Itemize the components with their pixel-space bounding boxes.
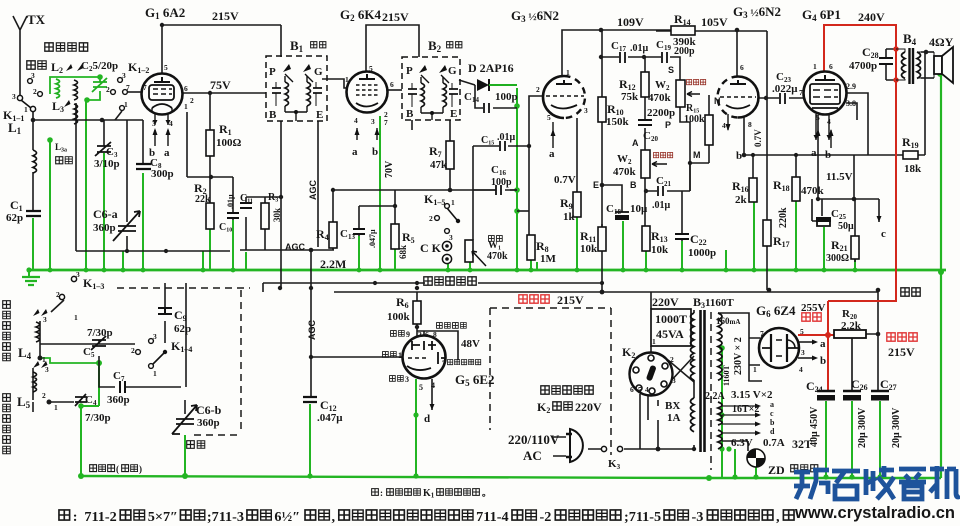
svg-text:G3 ½6N2: G3 ½6N2 (733, 4, 781, 20)
wire R1 bottom to R2 (209, 156, 211, 203)
1000T 45VA box (651, 309, 691, 346)
capacitor C6-b variable (172, 405, 197, 434)
svg-text:9: 9 (406, 330, 410, 339)
svg-text:2.2M: 2.2M (320, 257, 346, 271)
svg-text:4: 4 (827, 117, 831, 126)
svg-text:22k: 22k (195, 194, 211, 205)
svg-text:3: 3 (152, 119, 156, 128)
green vertical x203 (202, 251, 204, 270)
IF transformer B2 (402, 57, 460, 120)
green vertical 70V cathode G2 (379, 116, 381, 270)
text 短波振荡线圈 vertical (3, 301, 11, 309)
svg-text:10k: 10k (580, 243, 598, 255)
coil L3 bottom (74, 104, 78, 124)
wire x767 down to R17 (766, 31, 768, 220)
wire R16 top (752, 155, 754, 178)
svg-text:62p: 62p (6, 212, 23, 224)
resistor R14 horizontal (671, 26, 695, 35)
green stub R21 (854, 260, 856, 270)
svg-text:G: G (314, 66, 323, 78)
text 电源变换插 (541, 386, 549, 394)
svg-text::: : (73, 510, 78, 525)
capacitor C6-a variable (113, 211, 140, 241)
svg-text:AGC: AGC (308, 180, 318, 201)
resistor R18 (792, 177, 800, 201)
svg-text:3: 3 (672, 376, 676, 385)
text 调低音 (653, 152, 658, 157)
green vertical C6-b (184, 435, 186, 476)
text 指示灯 ZD (791, 465, 798, 472)
wire R21 (854, 199, 856, 262)
svg-text:,: , (331, 510, 335, 525)
svg-text:70V: 70V (384, 160, 395, 178)
resistor R4 (329, 222, 337, 248)
svg-text:300Ω: 300Ω (826, 253, 849, 264)
green vertical R16 (753, 202, 755, 270)
capacitor C25 electrolytic (817, 217, 830, 226)
svg-text:6: 6 (184, 84, 188, 93)
svg-text:C K: C K (420, 241, 442, 255)
capacitor C20 (638, 120, 652, 125)
red voltage labels (519, 288, 920, 341)
svg-text:62p: 62p (174, 323, 191, 335)
capacitor C19 (662, 52, 667, 63)
svg-text:4: 4 (169, 119, 173, 128)
svg-text:711-4: 711-4 (476, 510, 509, 525)
注: (59, 510, 70, 520)
wire G3a grid (529, 96, 543, 235)
green vertical C4/C5 node down to ground (81, 363, 99, 476)
green vertical C22 (681, 241, 683, 270)
svg-text:2: 2 (418, 330, 422, 339)
svg-text:7/30p: 7/30p (85, 412, 111, 424)
svg-text:5: 5 (816, 113, 820, 122)
green vertical R13 (645, 251, 647, 270)
note line small: 注:波段开关K1在中波位置。 (372, 488, 491, 500)
potentiometer W2 treble (676, 80, 685, 107)
wire y177 (187, 176, 233, 178)
text 接地线(接壳) (90, 465, 97, 472)
wire G2 pin5 to rail (366, 25, 419, 72)
tube G1 6A2 (142, 74, 183, 126)
green vertical C12 ground (309, 404, 311, 476)
dashed B3 shield (710, 312, 712, 470)
svg-text:。: 。 (482, 488, 491, 498)
svg-text:C6-b: C6-b (196, 403, 222, 417)
svg-text:;711-3: ;711-3 (207, 510, 244, 525)
green wire C2 bottom to node (87, 91, 100, 100)
green vertical C1 (32, 218, 34, 270)
left end drop to ground (28, 270, 30, 276)
svg-text:20μ 300V: 20μ 300V (891, 407, 902, 448)
wire B1 G to G2 grid (322, 79, 347, 88)
wire R17 bottom (766, 246, 768, 290)
svg-text:220k: 220k (778, 207, 789, 228)
svg-text:D 2AP16: D 2AP16 (468, 61, 514, 75)
capacitor C12 (303, 397, 317, 402)
svg-text:10k: 10k (651, 244, 669, 256)
svg-text:3: 3 (584, 106, 588, 115)
svg-text:150k: 150k (606, 116, 630, 128)
switch K1-4 (149, 339, 154, 344)
text 双连 (187, 441, 195, 449)
black junction dots (31, 23, 929, 452)
svg-text:3: 3 (371, 117, 375, 126)
svg-text:BX: BX (665, 400, 680, 412)
green vertical C13 (358, 236, 360, 270)
svg-text:470k: 470k (801, 185, 825, 197)
switch K3 (601, 446, 606, 451)
wire y211 to R8 (517, 210, 529, 212)
svg-text:215V: 215V (382, 10, 409, 24)
svg-text:1: 1 (42, 355, 46, 364)
svg-text:P: P (665, 120, 671, 130)
svg-text:E: E (316, 109, 323, 121)
capacitor C1 (26, 211, 41, 216)
svg-text:E: E (593, 180, 599, 190)
wire 215V rail to B1 (280, 25, 282, 57)
green vertical C26 (851, 401, 853, 477)
wire R15 top (690, 95, 709, 191)
wire C23 row y98 (757, 97, 804, 99)
wire C5 (98, 340, 100, 363)
svg-text:1: 1 (652, 337, 656, 346)
svg-text:.022μ: .022μ (772, 83, 798, 95)
svg-text:0.7V: 0.7V (753, 129, 763, 147)
green L2 loop (50, 77, 100, 94)
arrows heater taps B3 (755, 404, 761, 436)
svg-text:47k: 47k (430, 159, 448, 171)
wire C9 column (164, 283, 166, 343)
wire K2 cross wires (668, 356, 694, 384)
svg-text:4ΩY: 4ΩY (929, 35, 954, 49)
svg-text:2.2A: 2.2A (705, 391, 726, 402)
svg-text:3: 3 (45, 365, 49, 374)
wire C16 row (473, 189, 517, 191)
resistor R11 (598, 227, 606, 251)
text 调高音 (686, 79, 691, 84)
coil L2 green (56, 79, 60, 98)
resistor R2 (206, 203, 214, 229)
svg-text:0.7V: 0.7V (554, 174, 576, 186)
capacitor C10 (227, 213, 239, 218)
wire R1 top (209, 93, 211, 130)
svg-text:8: 8 (748, 120, 752, 129)
wire C10 (232, 177, 234, 220)
svg-text:c: c (881, 228, 886, 240)
wire M node R15 (690, 145, 709, 163)
wire G6 heater arrows feed (722, 406, 755, 433)
svg-text:18k: 18k (904, 163, 922, 175)
wire R7 bottom (449, 169, 451, 190)
svg-text:6: 6 (829, 62, 833, 71)
coil L3 top black (74, 80, 78, 100)
svg-text:1: 1 (566, 68, 570, 77)
svg-text:;711-5: ;711-5 (624, 510, 661, 525)
text 中周 B2 (447, 42, 453, 48)
text 栅极1 (383, 352, 389, 358)
wire R10 bottom E node (601, 122, 603, 292)
wire C25 (821, 199, 823, 216)
svg-text:2: 2 (429, 214, 433, 223)
capacitor C2 trimmer green (92, 78, 107, 92)
wire B3 primary top/bottom (693, 310, 695, 449)
wire R14 rail (656, 30, 767, 32)
resistor R16 (749, 178, 757, 202)
svg-text:.01μ: .01μ (630, 43, 649, 54)
svg-text:75V: 75V (210, 78, 231, 92)
wire K2 pin1 (650, 346, 652, 353)
wire G6 plate box (718, 313, 762, 381)
svg-text:160mA: 160mA (716, 316, 740, 326)
green vertical R2 (209, 229, 211, 270)
svg-text:2: 2 (536, 85, 540, 94)
svg-text:5: 5 (638, 385, 642, 394)
arrows heater G1 (155, 130, 168, 146)
text 短波 (27, 61, 35, 69)
svg-text:G: G (448, 65, 457, 77)
tube G5 6E2 (403, 336, 447, 379)
wire G3b plate (736, 30, 738, 76)
svg-text:b: b (149, 147, 155, 159)
svg-text:a: a (164, 147, 170, 159)
svg-text:45VA: 45VA (656, 327, 684, 341)
text 音量 W1 (489, 236, 495, 242)
K2 socket (630, 353, 673, 396)
wire B2 B/E down (412, 120, 450, 141)
wire C6-b top (184, 400, 186, 414)
arrows G6 a b (798, 342, 812, 358)
svg-text:4: 4 (722, 121, 726, 130)
tube G2 6K4 (347, 72, 388, 141)
green vertical ZD (755, 467, 757, 477)
svg-text:2: 2 (190, 96, 194, 105)
svg-text:200p: 200p (674, 46, 695, 57)
svg-text:220V: 220V (575, 400, 602, 414)
red wire down to C24 (827, 335, 829, 390)
svg-text:G4 6P1: G4 6P1 (802, 7, 841, 23)
arrow c right (877, 216, 882, 222)
svg-text:100p: 100p (491, 177, 512, 188)
svg-text:48V: 48V (461, 338, 480, 350)
switch K1-5 (445, 204, 450, 209)
wire R12 top (644, 57, 646, 72)
svg-text:B: B (406, 108, 414, 120)
green L4 to C5 node (40, 358, 99, 363)
svg-text:2: 2 (42, 391, 46, 400)
svg-text:3: 3 (76, 270, 80, 279)
wire G1 pin5 to 215V rail (162, 25, 281, 73)
svg-text:3/10p: 3/10p (94, 158, 120, 170)
text 阴极3 (390, 376, 396, 382)
green vertical R9 (576, 217, 578, 270)
wire G1 pin1 down (186, 112, 188, 177)
svg-text:a: a (352, 146, 358, 158)
svg-text:P: P (406, 65, 413, 77)
wire G1 plate 75V line (182, 92, 266, 94)
svg-text:1160T: 1160T (722, 364, 731, 386)
svg-text:3: 3 (12, 92, 16, 101)
green vertical L3a (49, 140, 51, 270)
output transformer B4 (896, 48, 921, 84)
wire K1-3 lever area (51, 276, 74, 312)
svg-text:100p: 100p (495, 91, 518, 103)
svg-text:a: a (549, 148, 555, 160)
wire C15 row (473, 145, 529, 147)
svg-text:a: a (820, 338, 826, 350)
wire C17 row y57 (602, 57, 680, 80)
wire K1-5 to W1 (472, 146, 474, 240)
svg-text:ZD: ZD (768, 463, 785, 477)
capacitor C11 (240, 203, 252, 208)
tube G4 6P1 (804, 72, 847, 141)
switch K1-2 contacts for C2 (28, 79, 33, 84)
capacitor C28 (879, 58, 893, 64)
green vertical C8 (142, 173, 144, 270)
svg-text:1A: 1A (667, 412, 681, 424)
wire 48V box (417, 331, 458, 360)
tube G6 6Z4 (759, 328, 799, 368)
char 石 (832, 471, 860, 499)
wire G2 plate to B2 (387, 89, 402, 91)
svg-text:AC: AC (523, 448, 542, 463)
svg-text:240V: 240V (858, 10, 885, 24)
red wire B4 primary loop (895, 49, 897, 80)
wire L3b column (75, 103, 77, 251)
svg-text:6: 6 (390, 80, 394, 89)
potentiometer W2 bass (641, 150, 650, 178)
wire W2a bottom (680, 107, 690, 191)
svg-text:220V: 220V (652, 295, 679, 309)
svg-text:(: ( (116, 464, 119, 474)
svg-text:7: 7 (799, 88, 803, 97)
wire 6.3V row (722, 441, 748, 451)
label 次高压 mid (519, 295, 527, 303)
svg-text:3: 3 (405, 375, 409, 384)
svg-text:11.5V: 11.5V (826, 171, 853, 183)
wire C13 (359, 206, 395, 236)
wire R4 (332, 190, 334, 250)
svg-text:G3 ½6N2: G3 ½6N2 (511, 8, 559, 24)
capacitor C17 (620, 52, 625, 63)
coil L5 (33, 372, 37, 392)
svg-text:4: 4 (799, 365, 803, 374)
svg-text:3: 3 (153, 332, 157, 341)
capacitor C5 trimmer (91, 336, 106, 350)
tube G3b half 6N2 (718, 77, 759, 132)
wire 109V junction down (601, 30, 603, 97)
text 天线线圈 (45, 43, 53, 51)
resistor R21 (851, 236, 859, 259)
wire det diode row (459, 80, 475, 85)
tube G3a half 6N2 (543, 76, 585, 148)
svg-text:www.crystalradio.cn: www.crystalradio.cn (794, 503, 955, 522)
text 拾音器插口 (424, 277, 432, 285)
capacitor C22 (675, 234, 689, 239)
green vertical C11/R3 (245, 252, 247, 270)
text 屏极9 (391, 331, 397, 337)
svg-text:3: 3 (43, 315, 47, 324)
svg-text:68k: 68k (398, 245, 408, 259)
svg-text:3.8: 3.8 (846, 99, 856, 108)
wire R11 (601, 224, 603, 227)
wire B1 B/E down (281, 121, 318, 288)
svg-text:,: , (776, 510, 780, 525)
svg-text:.01μ: .01μ (497, 132, 516, 143)
dashed band switch linkage (117, 287, 250, 289)
arrow d G5 (430, 404, 435, 410)
wire G5 grid row (311, 356, 403, 358)
green vertical C25 (823, 227, 825, 270)
svg-text:7: 7 (126, 83, 130, 92)
wire C3 column (103, 120, 105, 146)
pin numbers small (12, 62, 833, 412)
wire R13 top (644, 191, 646, 226)
switch K1-1 (17, 95, 22, 100)
wire R12 to C20 (644, 97, 646, 150)
svg-text:220/110V: 220/110V (508, 432, 560, 447)
wire C22 top (681, 191, 683, 241)
svg-text:B: B (630, 180, 637, 190)
capacitor C7 (115, 381, 125, 393)
svg-text:0.7A: 0.7A (763, 437, 785, 449)
wire R6 (416, 292, 418, 337)
wire contact7 to G1 grid (128, 91, 142, 93)
main green bus (27, 269, 946, 272)
svg-text:100k: 100k (387, 311, 411, 323)
svg-text:1: 1 (124, 100, 128, 109)
green junction dots (26, 71, 944, 481)
wire switch K1-2 lever (115, 111, 122, 120)
svg-text:E: E (450, 108, 457, 120)
wire BX column (657, 400, 659, 449)
svg-text:5: 5 (419, 383, 423, 392)
wire L5 area (33, 368, 74, 412)
green vertical heater tap (734, 449, 736, 477)
svg-text:6.3V: 6.3V (731, 437, 753, 449)
svg-text:A: A (632, 138, 639, 148)
green vertical C24 (825, 401, 827, 477)
svg-text:1k: 1k (563, 211, 576, 223)
resistor R15 (705, 115, 713, 145)
svg-text:B: B (269, 109, 277, 121)
wire L4 row y344 (40, 343, 135, 345)
red wire G4 plate 240V to B4 (824, 25, 896, 72)
svg-text:5: 5 (547, 113, 551, 122)
svg-text:2: 2 (670, 355, 674, 364)
wire C14 row (475, 85, 517, 108)
svg-text:1000T: 1000T (655, 312, 687, 326)
jack CK (442, 241, 451, 250)
svg-text:AGC: AGC (285, 242, 306, 252)
resistor R7 (446, 141, 454, 169)
switch K1-2 contacts (118, 78, 123, 83)
capacitor C14 (484, 103, 489, 113)
svg-text:215V: 215V (557, 293, 584, 307)
dashed linkage vertical x241 (240, 290, 242, 430)
wire x878 vertical to C27 (866, 292, 878, 391)
text 中波 (56, 157, 63, 164)
wire y197 C11 R3 feed (246, 197, 281, 203)
capacitor C23 (780, 93, 785, 104)
wire C6-a column (126, 120, 128, 251)
svg-text:C6-a: C6-a (93, 207, 118, 221)
svg-text:50μ: 50μ (838, 221, 854, 232)
svg-text:N: N (714, 96, 721, 106)
resistor R1 (206, 130, 214, 156)
wire plug to K3 (553, 437, 694, 456)
capacitor C4 trimmer (75, 394, 87, 406)
